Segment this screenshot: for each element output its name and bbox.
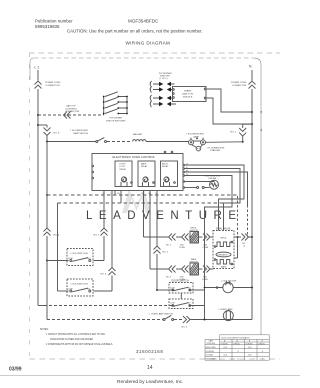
svg-text:Rendered by LeadVenture, Inc.: Rendered by LeadVenture, Inc. xyxy=(117,379,183,385)
svg-text:IGNITOR: IGNITOR xyxy=(190,230,199,232)
svg-text:RELAY: RELAY xyxy=(141,165,148,168)
svg-text:5995319836: 5995319836 xyxy=(35,24,60,29)
node junction lock A com xyxy=(46,260,48,262)
svg-text:COM-NC: COM-NC xyxy=(258,343,266,345)
svg-text:LAMP SWITCH: LAMP SWITCH xyxy=(73,132,89,135)
svg-text:NO. 2: NO. 2 xyxy=(163,252,169,254)
svg-text:CONN: CONN xyxy=(179,247,185,249)
wire no7 drop xyxy=(103,191,105,229)
node junction valve N2 xyxy=(251,236,253,238)
wire N bottom corner xyxy=(251,319,253,321)
oven lamp switch xyxy=(149,312,173,315)
svg-text:COM: COM xyxy=(170,303,175,305)
svg-text:PROBE: PROBE xyxy=(209,178,217,180)
EOC top terminals xyxy=(164,151,173,153)
node junction motor N xyxy=(251,287,253,289)
ignitor switch bank xyxy=(104,92,127,115)
node junction N spark2 xyxy=(251,123,253,125)
valve coil broil xyxy=(214,241,233,247)
bake ignitor row xyxy=(169,263,214,275)
svg-text:# OVEN LAMP: # OVEN LAMP xyxy=(218,308,233,311)
relay DLR xyxy=(115,161,132,187)
notes xyxy=(40,329,113,346)
svg-text:SPARK: SPARK xyxy=(184,89,192,92)
svg-text:OVEN DOOR CLOSED AND UNLOCKED: OVEN DOOR CLOSED AND UNLOCKED xyxy=(50,338,93,341)
ballast coil xyxy=(133,140,147,142)
svg-text:NO. 1: NO. 1 xyxy=(231,132,237,134)
EOC right terminals xyxy=(183,164,185,188)
node junction L1-no6 xyxy=(37,124,39,126)
svg-text:(LIGHTED): (LIGHTED) xyxy=(66,108,77,110)
wire to oven lamp xyxy=(190,319,223,321)
svg-text:# FLUORESCENT: # FLUORESCENT xyxy=(207,147,226,149)
svg-text:WIRING DIAGRAM: WIRING DIAGRAM xyxy=(126,41,171,46)
header publication number xyxy=(35,19,73,29)
wire fan f4 xyxy=(185,176,233,320)
svg-text:BAKE: BAKE xyxy=(141,163,147,166)
svg-text:BROIL: BROIL xyxy=(221,238,228,240)
wire fan f2 xyxy=(185,169,241,231)
door lock switch contacts table xyxy=(205,335,269,360)
oven lamp xyxy=(223,311,252,321)
svg-text:LOCKING: LOCKING xyxy=(206,351,215,353)
EOC left terminals xyxy=(92,165,94,179)
valve operator label xyxy=(216,252,231,257)
svg-text:316002168: 316002168 xyxy=(136,349,163,354)
svg-text:NO. 7: NO. 7 xyxy=(94,235,100,237)
connector NO 4 xyxy=(44,228,51,236)
connector NO 2 xyxy=(154,246,161,290)
node junction fluor start xyxy=(46,141,48,143)
svg-text:CONN: CONN xyxy=(203,247,209,249)
svg-text:RELAY: RELAY xyxy=(120,168,127,171)
svg-text:NO. 8: NO. 8 xyxy=(101,274,107,276)
svg-text:CAUTION: Use the part number: CAUTION: Use the part number on all orde… xyxy=(67,29,202,34)
svg-text:DOOR LOCK SWITCH CONTACTS: DOOR LOCK SWITCH CONTACTS xyxy=(221,336,250,339)
connector NO 8 xyxy=(94,268,116,292)
electronic oven control box xyxy=(92,154,183,191)
connector gas top xyxy=(64,112,71,119)
dual valve xyxy=(213,231,234,269)
svg-text:POWER CORD: POWER CORD xyxy=(231,82,247,84)
temperature probe xyxy=(185,180,219,189)
svg-text:CONN: CONN xyxy=(202,279,208,281)
wire valve lower exit xyxy=(234,237,238,258)
node junction motor feed xyxy=(204,287,206,289)
svg-text:NO. 6: NO. 6 xyxy=(54,133,60,135)
svg-text:# OVEN LAMP SWITCH: # OVEN LAMP SWITCH xyxy=(149,312,173,315)
switch fluorescent lamp switch xyxy=(96,138,107,143)
svg-text:Publication number: Publication number xyxy=(35,19,73,24)
svg-text:COM-NO: COM-NO xyxy=(245,343,253,345)
svg-text:IGNITOR SWITCHES: IGNITOR SWITCHES xyxy=(106,120,126,122)
connector NO 10 xyxy=(242,234,253,241)
wire bake drop xyxy=(150,191,168,270)
svg-text:POSITION: POSITION xyxy=(207,343,216,345)
svg-text:CONNECTOR: CONNECTOR xyxy=(65,111,79,113)
wire fan f3 xyxy=(185,172,248,205)
svg-text:COM: COM xyxy=(68,258,73,260)
svg-text:LEADVENTURE: LEADVENTURE xyxy=(86,210,243,222)
node junction valve N1 xyxy=(237,236,239,238)
wire no2 drop xyxy=(156,191,158,247)
wire L1 top xyxy=(37,70,39,81)
svg-text:COM-NC: COM-NC xyxy=(233,343,241,345)
wire gas top line xyxy=(38,114,104,116)
wire broil drop xyxy=(144,191,169,238)
wire no8 drop xyxy=(111,191,113,268)
wire N main xyxy=(251,70,253,320)
svg-text:COM: COM xyxy=(170,287,175,289)
connector power cord N xyxy=(249,81,256,89)
svg-text:LAMP: LAMP xyxy=(193,135,199,138)
watermark logo mark xyxy=(122,189,151,213)
wire fluorescent line xyxy=(48,141,96,143)
svg-text:CONNECTOR: CONNECTOR xyxy=(232,85,246,87)
svg-text:2 COMPONENTS WITH ## DO NOT: 2 COMPONENTS WITH ## DO NOT APPEAR ON AL… xyxy=(46,343,113,346)
svg-text:14: 14 xyxy=(147,365,153,371)
wire valve to N xyxy=(234,236,241,238)
connector NO 1 xyxy=(239,124,246,141)
node junction N spark1 xyxy=(251,111,253,113)
svg-text:IGNITOR: IGNITOR xyxy=(190,261,199,263)
wire oven lamp feed xyxy=(46,319,48,320)
broil ignitor row xyxy=(169,232,214,244)
wire N to NO1 tap xyxy=(243,123,252,125)
fan wire code labels xyxy=(186,163,189,176)
svg-text:NO. 5: NO. 5 xyxy=(166,245,171,247)
svg-text:1 CIRCUIT SHOWN WITH ALL CON: 1 CIRCUIT SHOWN WITH ALL CONTROLS SET TO… xyxy=(46,333,106,336)
svg-text:CONNECTOR: CONNECTOR xyxy=(46,85,60,87)
svg-text:BALLAST: BALLAST xyxy=(133,133,143,136)
connector power cord L1 xyxy=(35,81,42,89)
node junction L1-gastop xyxy=(37,114,39,116)
connector NO 3 xyxy=(183,316,190,323)
connector NO 6 xyxy=(44,125,51,142)
svg-text:COM: COM xyxy=(68,289,73,291)
node junction door sw com xyxy=(156,289,158,291)
wire ballast to lamp xyxy=(146,141,188,143)
svg-text:OPERATOR: OPERATOR xyxy=(218,253,229,256)
svg-text:DOOR SWITCH: DOOR SWITCH xyxy=(172,279,190,282)
wire fan f1 xyxy=(185,165,245,231)
connector NO 7 xyxy=(94,228,108,261)
svg-text:NO. 3: NO. 3 xyxy=(182,326,188,328)
svg-text:LOCKED: LOCKED xyxy=(206,355,214,357)
svg-text:L 1: L 1 xyxy=(35,66,40,70)
svg-text:03/99: 03/99 xyxy=(9,367,22,373)
svg-text:COM-NO: COM-NO xyxy=(220,343,228,345)
frame wire code marks xyxy=(260,111,262,132)
svg-text:MGF354BFDC: MGF354BFDC xyxy=(128,19,159,24)
svg-text:GAS TOP: GAS TOP xyxy=(66,105,76,108)
wire spark module to N rail lower xyxy=(206,98,251,124)
node junction rail A left xyxy=(46,194,48,196)
svg-text:CAM: CAM xyxy=(209,340,213,343)
svg-text:# FLUORESCENT: # FLUORESCENT xyxy=(186,134,205,136)
lock switch A xyxy=(67,249,93,266)
svg-text:ELECTRONIC OVEN CONTROL: ELECTRONIC OVEN CONTROL xyxy=(113,155,156,159)
svg-text:UNLOCKING: UNLOCKING xyxy=(206,359,217,361)
svg-text:POWER CORD: POWER CORD xyxy=(45,82,61,84)
svg-text:MODULE: MODULE xyxy=(183,96,193,98)
wire lock B feed xyxy=(57,203,59,291)
svg-text:DUAL VALVE: DUAL VALVE xyxy=(216,227,231,230)
fluorescent starter xyxy=(192,145,203,151)
node junction fluor right xyxy=(242,141,244,143)
svg-text:LOCK SWITCH A: LOCK SWITCH A xyxy=(71,252,89,255)
svg-text:TEMPERATURE: TEMPERATURE xyxy=(204,174,221,177)
svg-text:BAKE: BAKE xyxy=(221,266,227,269)
svg-text:STARTER: STARTER xyxy=(210,149,220,152)
spark module xyxy=(172,87,206,102)
relay bake xyxy=(138,161,155,187)
svg-text:NOTES:: NOTES: xyxy=(40,329,49,331)
wire L1 main xyxy=(37,89,39,306)
wire rail A dashed xyxy=(47,194,238,196)
wire to ballast xyxy=(107,141,132,143)
svg-text:NO. 4: NO. 4 xyxy=(54,235,60,237)
wire branch to NO6 xyxy=(38,124,47,126)
svg-text:( 1 OF 4 ): ( 1 OF 4 ) xyxy=(159,78,168,80)
svg-text:UNLOCKED: UNLOCKED xyxy=(206,347,217,349)
wire lamp row dashed left xyxy=(38,305,44,307)
wire rail B dashed xyxy=(58,202,231,204)
node junction lamp row xyxy=(204,319,206,321)
wire L1 branch vertical xyxy=(46,143,48,319)
outer dashed border xyxy=(29,53,280,359)
top burner ignitors xyxy=(159,73,173,80)
lock switch B xyxy=(67,279,93,296)
inner frame xyxy=(30,58,34,80)
valve coil bake xyxy=(214,259,233,265)
svg-text:RELAY: RELAY xyxy=(162,165,169,168)
relay broil xyxy=(161,161,178,187)
svg-text:LOCK SWITCH B: LOCK SWITCH B xyxy=(71,284,89,286)
wire spark module to N rail upper xyxy=(206,89,251,112)
EOC bottom terminal labels xyxy=(102,192,158,195)
fluorescent lamp xyxy=(189,138,206,145)
wire lamp to N side xyxy=(206,141,243,144)
svg-text:(GAS TOP): (GAS TOP) xyxy=(182,92,193,95)
svg-text:# FLUORESCENT: # FLUORESCENT xyxy=(70,130,89,132)
svg-text:NO. 9: NO. 9 xyxy=(166,277,171,279)
svg-text:10: 10 xyxy=(243,246,245,248)
